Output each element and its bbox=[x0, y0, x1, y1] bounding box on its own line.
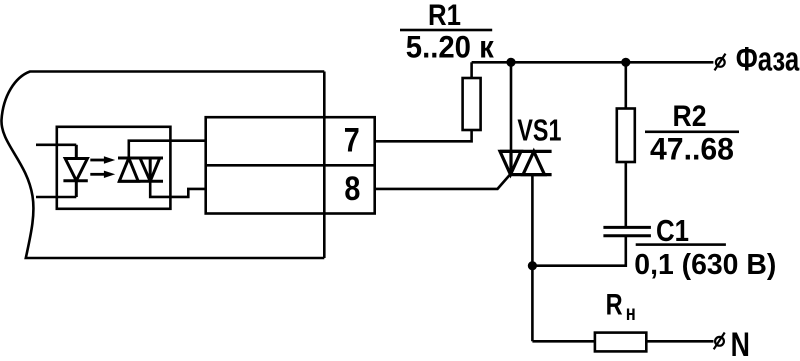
wire: phototriac top to pin 7 bbox=[129, 141, 206, 158]
label C1 bbox=[634, 213, 776, 281]
node: phase/VS1 junction bbox=[506, 58, 515, 67]
svg-text:Фаза: Фаза bbox=[736, 40, 800, 78]
svg-text:5..20 к: 5..20 к bbox=[406, 28, 494, 64]
wire: phase junction down to R2 bbox=[624, 62, 627, 108]
wire: LED cathode lead bbox=[36, 196, 76, 199]
resistor R2 bbox=[617, 109, 635, 163]
svg-text:C1: C1 bbox=[656, 213, 689, 248]
terminal block (pins 7/8) bbox=[206, 117, 375, 213]
svg-text:0,1 (630 В): 0,1 (630 В) bbox=[634, 249, 776, 281]
wire: load resistor to N terminal bbox=[646, 340, 713, 343]
resistor R1 bbox=[463, 78, 481, 130]
triac VS1 bbox=[500, 151, 552, 174]
svg-text:8: 8 bbox=[344, 170, 360, 208]
label Rн bbox=[606, 289, 636, 325]
svg-text:н: н bbox=[626, 302, 636, 325]
svg-text:47..68: 47..68 bbox=[650, 131, 734, 167]
svg-text:VS1: VS1 bbox=[517, 114, 561, 148]
wire: N line to load resistor bbox=[532, 340, 595, 343]
wire: C1 bottom to load junction bbox=[532, 236, 625, 266]
capacitor C1 bbox=[603, 227, 651, 235]
node: C1/load junction bbox=[528, 261, 537, 270]
wire: LED anode lead bbox=[36, 144, 76, 147]
terminal N bbox=[714, 333, 725, 350]
LED (optocoupler emitter diode) bbox=[63, 145, 87, 197]
svg-text:R2: R2 bbox=[673, 100, 707, 133]
wire: VS1 bottom down to N line bbox=[531, 175, 534, 342]
svg-text:R1: R1 bbox=[428, 0, 461, 32]
wire: pin 8 to VS1 gate bbox=[375, 175, 510, 189]
wire: pin 7 to R1 bbox=[375, 130, 472, 141]
wire: phase junction down to VS1 bbox=[510, 62, 513, 152]
wire: R2 to C1 bbox=[624, 162, 627, 227]
resistor Rн (load) bbox=[595, 333, 646, 352]
label R2 bbox=[645, 100, 739, 167]
device outline (instrument case with wavy break on left) bbox=[1, 72, 324, 259]
node: phase/R2 junction bbox=[621, 58, 630, 67]
svg-text:R: R bbox=[606, 289, 623, 322]
optocoupler box bbox=[57, 127, 171, 209]
terminal Фаза bbox=[715, 54, 726, 71]
wire: R1 top to phase line bbox=[470, 62, 473, 78]
label R1 bbox=[400, 0, 494, 64]
phototriac (optocoupler output) bbox=[118, 158, 163, 181]
light arrows bbox=[90, 156, 115, 178]
wire: phase line bbox=[472, 61, 714, 64]
svg-text:N: N bbox=[731, 326, 750, 361]
wire: phototriac bottom to pin 8 (with jog) bbox=[150, 181, 206, 197]
svg-text:7: 7 bbox=[344, 121, 360, 159]
